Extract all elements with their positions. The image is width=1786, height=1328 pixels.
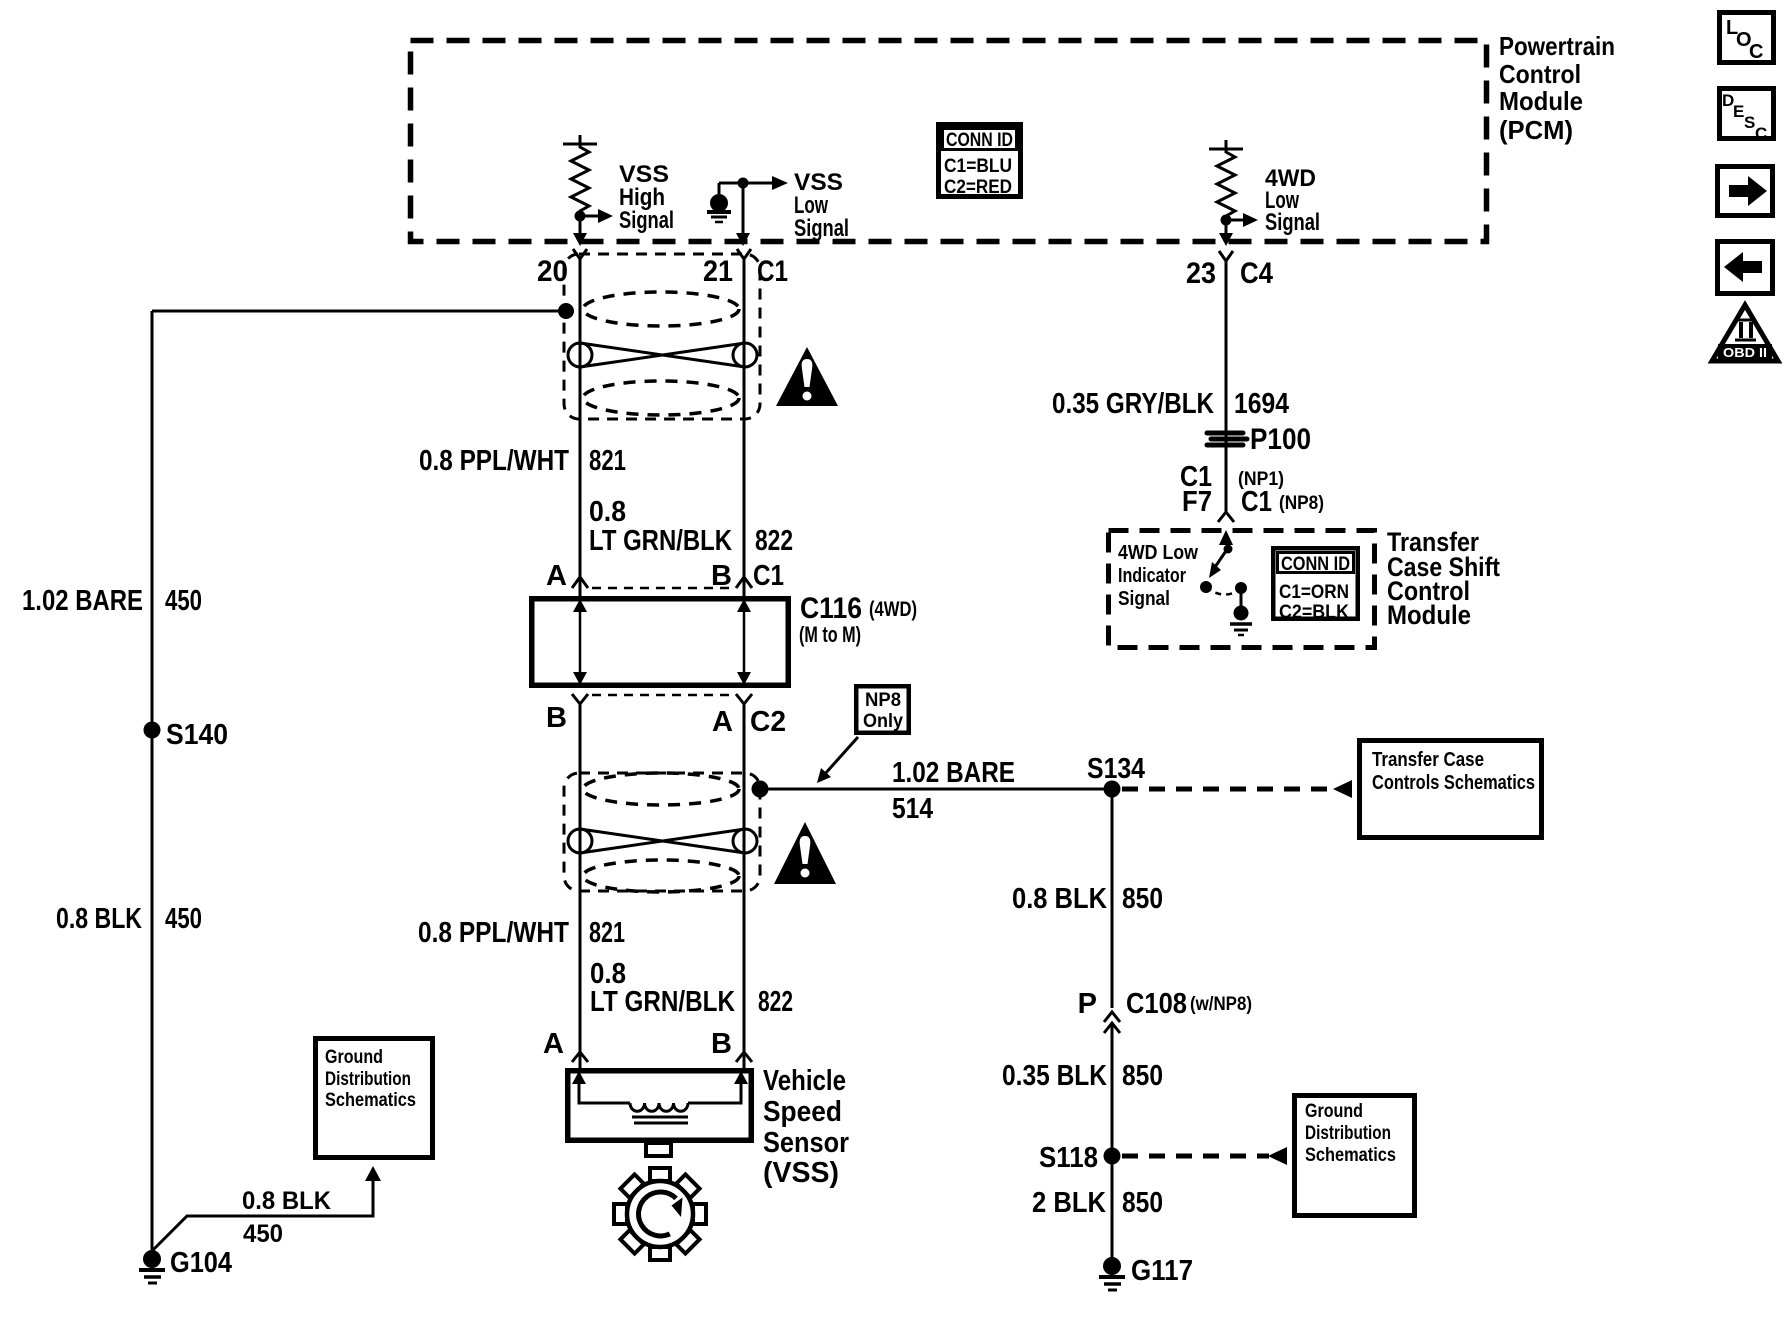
wire C108 down — [1111, 1025, 1114, 1258]
label 0.35 BLK 850 — [1002, 1060, 1163, 1092]
ground (internal PCM, VSS low) — [707, 183, 731, 222]
svg-text:NP8: NP8 — [865, 690, 901, 711]
grommet P100 — [1207, 423, 1311, 456]
resistor 4WD Low (internal PCM) — [1209, 140, 1258, 246]
CONN ID box (transfer case) — [1273, 548, 1358, 623]
svg-text:C116: C116 — [800, 592, 862, 625]
svg-text:0.35 GRY/BLK: 0.35 GRY/BLK — [1052, 388, 1214, 420]
svg-text:B: B — [711, 1028, 732, 1060]
svg-text:1694: 1694 — [1234, 388, 1289, 420]
label 0.8 BLK 850 — [1012, 883, 1163, 915]
wire 4WD low 23 down — [1225, 261, 1228, 512]
connector symbol at F7 — [1218, 512, 1234, 522]
label 0.8 PPL/WHT 821 — [419, 445, 626, 477]
splice S118 — [1039, 1142, 1121, 1174]
svg-text:C108: C108 — [1126, 988, 1187, 1020]
DESC icon — [1720, 89, 1774, 144]
LOC icon — [1720, 13, 1774, 64]
Transfer Case Controls Schematics box — [1360, 741, 1542, 838]
connector C108 — [1078, 988, 1252, 1033]
4WD Low Signal label — [1265, 165, 1320, 236]
svg-text:Signal: Signal — [1118, 588, 1170, 610]
left drain wire vertical — [151, 311, 154, 1251]
NP8 Only box — [856, 686, 909, 733]
svg-text:0.8 BLK: 0.8 BLK — [242, 1187, 331, 1215]
svg-text:G104: G104 — [170, 1247, 232, 1279]
reluctor gear — [614, 1168, 706, 1260]
svg-text:C1=BLU: C1=BLU — [944, 156, 1012, 177]
splice S134 — [1087, 753, 1145, 798]
warning triangle 2 — [774, 822, 836, 884]
connector C1/F7 labels — [1180, 461, 1324, 518]
ground G104 — [139, 1247, 232, 1283]
svg-text:C2=BLK: C2=BLK — [1279, 602, 1349, 623]
label 1.02 BARE 450 — [22, 585, 202, 617]
svg-text:4WD Low: 4WD Low — [1118, 542, 1198, 564]
Ground Distribution Schematics box (left) — [316, 1039, 433, 1158]
svg-text:CONN ID: CONN ID — [1281, 554, 1350, 575]
svg-text:Schematics: Schematics — [1305, 1145, 1396, 1166]
svg-text:C1: C1 — [757, 255, 788, 288]
svg-text:A: A — [543, 1028, 564, 1060]
forward arrow icon — [1718, 167, 1773, 216]
svg-text:Only: Only — [863, 711, 903, 732]
svg-text:Powertrain: Powertrain — [1499, 31, 1615, 61]
Transfer Case Shift Control Module label — [1387, 527, 1500, 630]
NP8 arrow — [817, 737, 858, 783]
wire A down to VSS — [743, 704, 746, 1068]
OBD II icon — [1712, 305, 1778, 361]
Ground Distribution Schematics box (right) — [1295, 1096, 1415, 1216]
svg-text:C: C — [1749, 41, 1763, 63]
ground G117 — [1099, 1255, 1193, 1290]
svg-text:821: 821 — [589, 445, 626, 477]
svg-text:C1: C1 — [1241, 486, 1272, 518]
svg-text:B: B — [711, 560, 732, 592]
svg-text:Ground: Ground — [325, 1047, 383, 1068]
svg-text:0.8: 0.8 — [589, 496, 626, 528]
svg-text:850: 850 — [1122, 883, 1163, 915]
shield drain junction — [558, 303, 574, 319]
svg-text:Sensor: Sensor — [763, 1127, 849, 1159]
svg-text:C1=ORN: C1=ORN — [1279, 582, 1349, 603]
svg-text:0.8 BLK: 0.8 BLK — [56, 903, 142, 935]
svg-text:(VSS): (VSS) — [763, 1157, 839, 1189]
svg-text:E: E — [1733, 102, 1744, 121]
C116 top connectors A B C1 — [546, 560, 784, 592]
wire drain horizontal — [152, 310, 566, 313]
shield junction to S134 — [752, 781, 769, 798]
svg-text:Transfer Case: Transfer Case — [1372, 749, 1484, 771]
wire G104 to ground distribution box — [152, 1166, 381, 1251]
svg-text:Vehicle: Vehicle — [763, 1065, 846, 1097]
dashed reference to ground distribution — [1122, 1147, 1287, 1165]
svg-text:A: A — [546, 560, 567, 592]
svg-text:(NP8): (NP8) — [1279, 493, 1324, 514]
svg-text:Distribution: Distribution — [325, 1069, 411, 1090]
CONN ID box (PCM) — [939, 125, 1021, 199]
svg-text:CONN ID: CONN ID — [946, 130, 1013, 151]
svg-text:Signal: Signal — [1265, 209, 1320, 236]
Vehicle Speed Sensor box — [568, 1071, 752, 1156]
splice S140 — [144, 719, 229, 751]
svg-text:P: P — [1078, 988, 1097, 1020]
svg-text:450: 450 — [165, 903, 202, 935]
svg-text:Signal: Signal — [619, 207, 674, 234]
svg-text:Module: Module — [1387, 600, 1471, 630]
4WD low indicator switch — [1200, 545, 1247, 607]
svg-text:G117: G117 — [1131, 1255, 1193, 1287]
svg-text:Indicator: Indicator — [1118, 565, 1186, 587]
svg-text:21: 21 — [703, 255, 733, 288]
svg-text:F7: F7 — [1182, 486, 1212, 518]
svg-text:1.02 BARE: 1.02 BARE — [892, 757, 1015, 789]
wire pin20 down — [579, 259, 582, 596]
svg-text:(M to M): (M to M) — [799, 622, 861, 647]
svg-text:A: A — [712, 706, 733, 738]
svg-text:450: 450 — [243, 1220, 283, 1248]
ground inside module — [1230, 606, 1252, 636]
VSS top connectors A B — [543, 1028, 752, 1062]
svg-text:2 BLK: 2 BLK — [1032, 1187, 1106, 1219]
wire pin21 down — [743, 259, 746, 596]
VSS High Signal label — [619, 161, 674, 234]
connector C116 box — [532, 592, 917, 685]
label 0.8 LT GRN/BLK 822 lower — [590, 958, 793, 1018]
svg-text:Ground: Ground — [1305, 1101, 1363, 1122]
svg-text:0.8 PPL/WHT: 0.8 PPL/WHT — [419, 445, 569, 477]
svg-text:23: 23 — [1186, 257, 1216, 290]
warning triangle 1 — [776, 347, 838, 406]
svg-text:0.8 PPL/WHT: 0.8 PPL/WHT — [418, 917, 569, 949]
svg-text:(PCM): (PCM) — [1499, 115, 1573, 145]
svg-text:822: 822 — [758, 986, 793, 1018]
label 0.8 BLK 450 bottom — [242, 1187, 331, 1248]
svg-text:C4: C4 — [1240, 257, 1273, 290]
wire S134 down — [1111, 789, 1114, 1008]
PCM label — [1499, 31, 1615, 145]
svg-text:Distribution: Distribution — [1305, 1123, 1391, 1144]
label 1.02 BARE 514 — [892, 757, 1015, 825]
VSS label — [763, 1065, 849, 1189]
back arrow icon — [1718, 242, 1773, 294]
svg-text:C2=RED: C2=RED — [944, 177, 1012, 198]
resistor VSS High (internal PCM) — [563, 135, 613, 246]
C116 bottom connectors B A C2 — [546, 694, 786, 738]
svg-text:S134: S134 — [1087, 753, 1145, 785]
svg-text:Control: Control — [1499, 59, 1581, 89]
pin 23 connector — [1186, 251, 1273, 290]
svg-text:821: 821 — [589, 917, 625, 949]
label 0.8 BLK 450 left — [56, 903, 202, 935]
svg-text:514: 514 — [892, 793, 933, 825]
svg-text:Signal: Signal — [794, 215, 849, 242]
4WD Low Indicator Signal label — [1118, 542, 1198, 610]
svg-text:850: 850 — [1122, 1060, 1163, 1092]
svg-text:0.8 BLK: 0.8 BLK — [1012, 883, 1107, 915]
svg-text:850: 850 — [1122, 1187, 1163, 1219]
inductor coil — [630, 1103, 688, 1111]
svg-text:C1: C1 — [753, 560, 784, 592]
wire into module with up arrow — [1219, 530, 1233, 545]
svg-text:1.02 BARE: 1.02 BARE — [22, 585, 143, 617]
svg-text:(4WD): (4WD) — [869, 598, 917, 621]
twisted pair crossing 2 — [568, 829, 757, 853]
svg-text:LT GRN/BLK: LT GRN/BLK — [589, 525, 732, 557]
dashed reference to transfer case controls — [1122, 780, 1352, 798]
svg-text:S: S — [1744, 113, 1755, 132]
svg-text:450: 450 — [165, 585, 202, 617]
twisted pair shield 1 — [564, 254, 760, 419]
label 0.35 GRY/BLK 1694 — [1052, 388, 1289, 420]
wire shield2 to S134 — [760, 788, 1112, 791]
svg-text:C2: C2 — [750, 706, 786, 738]
svg-text:0.35 BLK: 0.35 BLK — [1002, 1060, 1107, 1092]
svg-text:C: C — [1755, 124, 1767, 143]
wire VSS low internal — [719, 176, 788, 246]
label 0.8 PPL/WHT 821 lower — [418, 917, 625, 949]
Transfer Case Shift Control Module dashed box — [1109, 531, 1375, 648]
svg-text:OBD II: OBD II — [1723, 345, 1767, 360]
svg-text:(w/NP8): (w/NP8) — [1190, 994, 1252, 1015]
svg-text:Schematics: Schematics — [325, 1090, 416, 1111]
pin 21 connector — [703, 249, 788, 288]
svg-text:LT GRN/BLK: LT GRN/BLK — [590, 986, 735, 1018]
PCM module dashed box — [411, 41, 1487, 242]
label 2 BLK 850 — [1032, 1187, 1163, 1219]
svg-text:S118: S118 — [1039, 1142, 1098, 1174]
svg-text:S140: S140 — [166, 719, 228, 751]
svg-text:B: B — [546, 702, 567, 734]
svg-text:P100: P100 — [1250, 423, 1311, 456]
svg-text:822: 822 — [755, 525, 793, 557]
svg-text:Controls Schematics: Controls Schematics — [1372, 772, 1535, 794]
VSS Low Signal label — [794, 169, 849, 242]
twisted pair crossing 1 — [568, 343, 757, 367]
twisted pair shield 2 — [564, 773, 760, 892]
wire B down to VSS — [579, 704, 582, 1068]
svg-text:Speed: Speed — [763, 1096, 842, 1128]
pin 20 connector — [537, 249, 587, 288]
label 0.8 LT GRN/BLK 822 — [589, 496, 793, 557]
svg-text:Module: Module — [1499, 86, 1583, 116]
